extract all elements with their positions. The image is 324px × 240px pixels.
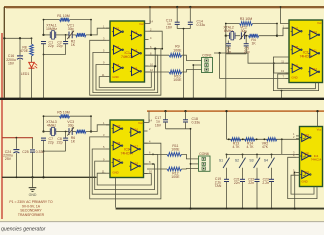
wire	[281, 139, 283, 154]
wire IC4 loop 1	[288, 157, 317, 198]
wire	[19, 59, 21, 98]
IC1 pin 4	[145, 36, 153, 40]
inverter N2 IC1	[112, 45, 124, 54]
wire	[149, 54, 170, 56]
wire osc3 feedback top	[44, 115, 92, 117]
junction	[316, 110, 318, 112]
CON1 label	[202, 53, 212, 57]
svg-text:Vcc: Vcc	[317, 128, 322, 132]
wire CON1 pin2 ground	[193, 65, 201, 98]
wire IC2 loop 2	[273, 57, 318, 91]
C22 label	[248, 177, 254, 185]
IC1 pin 5	[103, 49, 110, 53]
svg-text:TRANSFORMER: TRANSFORMER	[18, 213, 45, 217]
C4 label	[225, 47, 231, 55]
IC4 Vcc label	[317, 128, 322, 132]
svg-text:N4: N4	[134, 30, 138, 34]
svg-text:S3: S3	[249, 159, 253, 163]
wire	[149, 71, 170, 73]
junction	[242, 208, 244, 210]
capacitor C16	[17, 56, 23, 59]
svg-text:22p: 22p	[57, 44, 63, 48]
R3 label	[240, 17, 253, 21]
svg-text:N16: N16	[133, 127, 138, 131]
inverter N8 IC2	[291, 45, 303, 54]
C23 label	[262, 177, 269, 185]
junction	[225, 110, 227, 112]
wire	[44, 131, 51, 133]
inverter N3 IC1	[112, 63, 124, 72]
junction	[42, 98, 44, 100]
wire	[31, 68, 33, 97]
wire IC2 ground drop	[281, 91, 283, 98]
R10 label	[173, 75, 182, 83]
R8 label	[20, 45, 29, 53]
R14 label	[247, 142, 255, 150]
left border wire	[3, 7, 5, 98]
switch S1	[219, 154, 230, 179]
junction	[30, 98, 32, 100]
IC1 pin 12	[145, 68, 154, 72]
wire GND stub	[32, 177, 34, 187]
junction	[161, 48, 163, 50]
trimmer capacitor VC2	[240, 32, 247, 40]
junction	[154, 48, 156, 68]
capacitor C5	[244, 44, 249, 46]
schmitt inverter N20 IC4	[300, 151, 311, 160]
IC4 GND label	[301, 180, 307, 184]
svg-text:N7: N7	[295, 26, 299, 30]
wire IC1 loop 2	[93, 52, 158, 92]
switch S2	[235, 154, 246, 179]
wire to IC1 pin1	[86, 28, 110, 35]
junction	[42, 115, 44, 132]
wire	[214, 53, 289, 63]
C1 label	[48, 41, 54, 49]
IC4 pin 3	[293, 151, 299, 155]
wire	[220, 53, 289, 78]
inverter N11 IC2	[308, 48, 320, 57]
IC2 pin 11	[281, 59, 289, 63]
XTAL1 label	[46, 24, 57, 32]
junction	[242, 138, 244, 140]
junction	[164, 110, 186, 112]
IC1 pin 3	[103, 37, 110, 41]
inverter N16 IC3	[129, 127, 140, 136]
svg-text:quencies generator: quencies generator	[1, 227, 46, 233]
svg-text:N10: N10	[312, 30, 317, 34]
crystal XTAL1	[50, 31, 55, 39]
C8 label	[57, 137, 63, 145]
svg-text:GND: GND	[291, 76, 297, 80]
wire osc1 right node	[90, 20, 92, 35]
svg-text:100E: 100E	[173, 48, 182, 52]
svg-text:74HC14: 74HC14	[311, 157, 322, 161]
IC1 pin 9	[103, 61, 110, 65]
ground rail bottom-left	[2, 176, 97, 178]
IC1 Vcc label	[139, 22, 144, 26]
IC3 pin 4	[144, 139, 152, 143]
wire	[72, 34, 76, 36]
wire	[15, 153, 17, 177]
C7 label	[48, 137, 54, 145]
IC2 pin 13	[281, 69, 289, 73]
ground	[29, 188, 37, 192]
wire	[165, 111, 167, 119]
IC4 pin 5	[293, 169, 299, 173]
C18 label	[192, 117, 201, 125]
wire IC1 loop 4	[99, 72, 151, 87]
svg-text:LED1: LED1	[21, 72, 30, 76]
wire	[245, 46, 247, 54]
wire	[147, 153, 167, 155]
svg-text:N15: N15	[116, 158, 121, 162]
wire supply branch	[4, 37, 31, 39]
svg-text:C25: C25	[22, 150, 28, 154]
C16 label	[6, 54, 16, 65]
inverter N4 IC1	[130, 30, 142, 39]
junction	[225, 98, 227, 100]
svg-text:N1: N1	[116, 27, 120, 31]
resistor R3	[240, 22, 253, 26]
wire	[245, 35, 249, 37]
IC4 pin 1	[293, 132, 299, 136]
junction	[152, 154, 154, 165]
svg-text:100E: 100E	[171, 148, 180, 152]
capacitor column S4	[269, 179, 274, 181]
IC3 GND label	[112, 171, 118, 175]
junction	[19, 98, 21, 100]
resistor R4	[249, 34, 259, 38]
C14 label	[197, 20, 206, 28]
IC2 Vcc label	[317, 21, 322, 25]
junction	[176, 6, 191, 8]
resistor VR2	[267, 138, 278, 141]
wire IC3 loop 1	[90, 137, 161, 199]
wire IC4 loop 2	[291, 175, 314, 194]
IC1 name	[121, 51, 134, 59]
junction	[190, 163, 192, 165]
wire	[189, 7, 191, 22]
inverter N7 IC2	[291, 26, 303, 35]
IC2 name	[300, 51, 313, 59]
svg-text:N12: N12	[312, 67, 317, 71]
Vcc rail bottom figure (orange)	[147, 110, 324, 112]
wire	[235, 35, 240, 37]
IC4 pin 4	[293, 154, 299, 158]
svg-text:S2: S2	[235, 159, 239, 163]
C17 label	[155, 116, 162, 127]
IC4 name	[311, 154, 322, 162]
ground rail top figure (thick)	[0, 98, 324, 100]
wire osc1 ground drop	[43, 55, 45, 98]
junction	[149, 6, 151, 8]
capacitor C18	[183, 120, 188, 122]
IC1 pin 10	[145, 62, 154, 66]
IC3 pin 14	[144, 119, 153, 123]
resistor R11	[167, 153, 182, 157]
IC3 Vcc label	[138, 121, 143, 125]
wire	[56, 34, 69, 36]
inverter N15 IC3	[112, 158, 123, 167]
junction	[226, 208, 228, 210]
svg-text:CON6: CON6	[199, 152, 209, 156]
inverter N5 IC1	[130, 48, 142, 57]
IC4 pin 6	[293, 171, 299, 175]
junction	[280, 98, 282, 100]
junction	[42, 19, 44, 36]
svg-text:22p: 22p	[57, 141, 63, 145]
IC3 pin 1	[103, 121, 110, 125]
svg-text:Vcc: Vcc	[139, 22, 144, 26]
VC3 label	[67, 120, 74, 128]
wire IC2 loop 1	[278, 74, 316, 89]
R6 label	[71, 136, 76, 144]
wire osc2 left node	[225, 24, 227, 36]
wire	[256, 182, 258, 208]
svg-text:N14: N14	[116, 141, 121, 145]
schmitt inverter N21 IC4	[300, 170, 311, 179]
switch S4	[264, 154, 275, 179]
IC3 pin 2	[144, 127, 152, 131]
junction	[276, 23, 278, 37]
svg-text:N13: N13	[116, 124, 121, 128]
op IC1 74HC04 body	[110, 21, 145, 82]
IC3 pin 10	[144, 170, 153, 174]
C19 label	[215, 177, 222, 188]
svg-text:100E: 100E	[173, 78, 182, 82]
inverter N14 IC3	[112, 141, 123, 150]
wire IC3 loop 4	[97, 173, 151, 185]
capacitor column S1	[224, 179, 229, 181]
capacitor C1	[41, 42, 46, 44]
switch S3	[249, 154, 260, 179]
R9 label	[173, 45, 182, 53]
capacitor C13	[175, 22, 180, 24]
resistor R9	[169, 53, 182, 57]
transformer note	[9, 200, 53, 217]
inverter N18 IC3	[129, 161, 140, 170]
junction	[43, 54, 45, 56]
wire IC3 loop 2	[92, 149, 158, 194]
XTAL2 label	[223, 25, 233, 33]
junction	[242, 153, 244, 155]
IC1 pin 2	[145, 27, 153, 31]
junction	[182, 28, 184, 100]
inverter N13 IC3	[112, 124, 123, 133]
wire IC1 Vcc to rail	[149, 7, 151, 24]
resistor R13	[231, 138, 242, 141]
capacitor C4	[226, 44, 231, 46]
inverter N17 IC3	[129, 144, 140, 153]
svg-text:22n: 22n	[234, 181, 240, 185]
junction	[16, 176, 18, 178]
junction	[281, 138, 283, 140]
wire	[149, 31, 163, 49]
wire	[147, 168, 167, 170]
resistor R10	[169, 70, 182, 74]
junction	[263, 138, 265, 140]
junction	[226, 153, 228, 155]
svg-text:S4: S4	[264, 159, 268, 163]
junction	[31, 176, 33, 178]
junction	[65, 34, 67, 36]
IC3 pin 5	[103, 145, 110, 149]
junction	[3, 37, 32, 39]
junction	[65, 131, 67, 133]
VC1 label	[67, 24, 74, 32]
svg-text:N18: N18	[133, 161, 138, 165]
junction	[271, 153, 273, 155]
svg-text:22p: 22p	[48, 141, 54, 145]
wire	[154, 49, 156, 66]
wire decoupling ground	[177, 28, 190, 30]
IC3 pin 6	[144, 151, 152, 155]
svg-text:30p: 30p	[68, 27, 74, 31]
wire osc1 feedback top	[44, 19, 92, 21]
svg-text:N9: N9	[295, 63, 299, 67]
svg-text:N6: N6	[134, 66, 138, 70]
GND label	[29, 193, 37, 197]
wire	[65, 35, 67, 41]
svg-text:30p: 30p	[68, 124, 74, 128]
IC2 GND label	[291, 76, 297, 80]
capacitor C24	[13, 150, 19, 153]
wire	[227, 41, 229, 44]
connector CON6	[199, 156, 211, 171]
wire	[176, 24, 178, 28]
trimmer capacitor VC1	[67, 31, 74, 39]
svg-text:Vcc: Vcc	[138, 121, 143, 125]
resistor R14	[245, 138, 256, 141]
svg-text:0.33u: 0.33u	[192, 121, 201, 125]
LED1	[29, 62, 38, 68]
junction	[281, 90, 283, 92]
wire	[65, 140, 67, 151]
wire osc2 feedback top	[226, 23, 277, 25]
wire	[44, 34, 51, 36]
wire	[72, 131, 76, 133]
crystal XTAL2	[230, 32, 235, 40]
svg-text:N5: N5	[134, 48, 138, 52]
junction	[273, 62, 275, 64]
IC2 pin 1	[283, 24, 289, 28]
wire osc2 ground drop	[225, 54, 227, 98]
C24 label	[3, 150, 13, 161]
wire	[259, 35, 277, 37]
crystal XTAL3	[50, 127, 55, 135]
resistor R1	[60, 18, 70, 22]
Vcc rail top (brown)	[4, 7, 324, 8]
IC1 pin 8	[145, 51, 153, 55]
wire IC4 ground drop	[294, 172, 296, 207]
svg-text:N17: N17	[133, 144, 138, 148]
VC2 label	[240, 25, 247, 33]
capacitor column S2	[240, 179, 245, 181]
wire osc2 ground bus	[226, 36, 246, 54]
resistor R8	[30, 44, 34, 56]
supply rail bottom-left (maroon)	[2, 137, 33, 139]
wire	[185, 122, 187, 129]
wire switch feed	[227, 138, 300, 140]
junction	[256, 208, 258, 210]
wire	[242, 182, 244, 208]
svg-text:R1 10M: R1 10M	[57, 14, 70, 18]
wire	[19, 38, 21, 55]
wire osc1 left node	[43, 20, 45, 35]
svg-text:22p: 22p	[48, 44, 54, 48]
R5 label	[57, 111, 70, 115]
wire	[15, 138, 17, 149]
capacitor column S3	[255, 179, 260, 181]
wire	[245, 36, 247, 44]
wire	[185, 111, 187, 119]
junction	[218, 52, 220, 54]
svg-text:4.7K: 4.7K	[233, 145, 241, 149]
svg-text:1K: 1K	[71, 43, 76, 47]
IC3 pin 3	[103, 133, 110, 137]
op IC4 74HC14 body	[300, 127, 323, 187]
svg-text:N11: N11	[312, 48, 317, 52]
wire osc2 right node	[276, 24, 278, 36]
wire	[226, 35, 230, 37]
R13 label	[233, 142, 241, 150]
wire row2 to IC4	[282, 153, 300, 155]
op IC3 74HC04 body	[110, 120, 144, 178]
wire to IC3 pin1	[86, 125, 110, 132]
svg-text:N8: N8	[295, 45, 299, 49]
wire	[189, 24, 191, 28]
svg-text:GND: GND	[112, 171, 118, 175]
figure bottom edge	[0, 221, 324, 223]
svg-text:Vcc: Vcc	[317, 21, 322, 25]
junction	[192, 64, 194, 100]
junction	[228, 138, 230, 140]
wire	[226, 182, 228, 208]
svg-text:2.2n: 2.2n	[262, 181, 269, 185]
inverter N1 IC1	[112, 27, 124, 36]
resistor R12	[167, 167, 182, 171]
wire IC1 loop 3	[96, 65, 155, 91]
capacitor C7	[41, 138, 46, 140]
wire decoupling ground bus	[166, 128, 191, 130]
resistor R2	[76, 33, 86, 37]
svg-text:4.7K: 4.7K	[247, 145, 255, 149]
op IC2 74HC04 body	[289, 20, 323, 83]
junction	[256, 153, 258, 155]
wire	[31, 56, 33, 62]
R12 label	[171, 172, 180, 180]
wire	[176, 7, 178, 22]
svg-text:0.33u: 0.33u	[197, 23, 206, 27]
inverter N9 IC2	[291, 63, 303, 72]
wire IC3 Vcc to rail	[148, 111, 150, 122]
wire	[43, 140, 45, 151]
capacitor C8	[63, 138, 68, 140]
wire switch row2	[227, 153, 282, 155]
caption text	[1, 227, 46, 233]
wire switch Vcc drop	[226, 111, 228, 139]
svg-text:16V: 16V	[155, 123, 162, 127]
VR2 label	[262, 142, 269, 150]
IC3 pin 8	[144, 160, 152, 164]
junction	[16, 137, 18, 139]
svg-text:22n: 22n	[248, 181, 254, 185]
connector CON1	[202, 58, 213, 73]
wire osc3 ground drop	[43, 151, 45, 177]
junction	[42, 176, 44, 178]
wire	[227, 46, 229, 54]
